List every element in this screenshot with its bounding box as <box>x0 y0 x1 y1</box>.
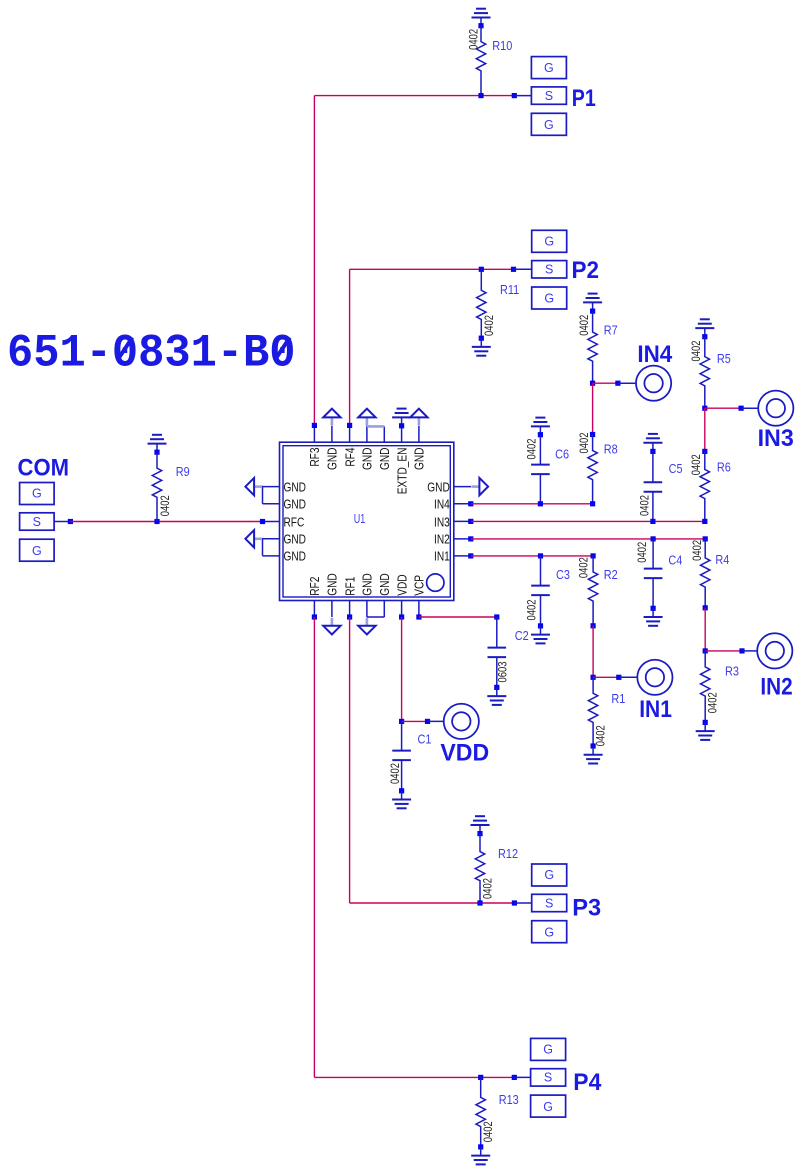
junction VDD pin <box>399 614 404 619</box>
junction R9 top <box>154 450 159 455</box>
capacitor C2 bottom lead <box>496 657 498 687</box>
wire IN1 net <box>471 555 593 557</box>
svg-text:R9: R9 <box>176 464 190 479</box>
junction IN4 branch <box>590 381 595 386</box>
svg-text:0402: 0402 <box>639 495 652 516</box>
svg-text:P3: P3 <box>572 895 601 922</box>
R11 ground lead <box>480 338 482 347</box>
connector VDD <box>444 704 479 739</box>
junction R4 bottom <box>703 605 708 610</box>
P1 port pin stub <box>514 95 531 97</box>
svg-text:0402: 0402 <box>578 432 591 453</box>
svg-text:R4: R4 <box>715 552 729 567</box>
capacitor C5 <box>644 482 663 492</box>
gnd arrow left GND1 <box>245 478 262 495</box>
U1 pad indicator circle <box>427 574 444 591</box>
wire IN1 to connector <box>593 676 619 678</box>
pin GND left4 stub <box>263 538 280 540</box>
svg-text:0402: 0402 <box>482 1121 495 1142</box>
ground at EXTD_EN <box>392 409 411 418</box>
resistor R5 <box>700 337 709 409</box>
wire P3 horizontal <box>350 902 515 904</box>
pin GND right stub <box>454 486 471 488</box>
wire IN2 net <box>471 538 705 540</box>
capacitor C4 bottom lead <box>652 578 654 608</box>
resistor R8 <box>588 435 597 504</box>
R1 ground lead <box>592 746 594 755</box>
svg-text:0402: 0402 <box>482 878 495 899</box>
svg-text:0402: 0402 <box>595 725 608 746</box>
slash of zero in 0831 <box>118 338 133 360</box>
junction R8 top <box>590 432 595 437</box>
pin RF1 stub <box>349 601 351 618</box>
junction R13 bottom <box>478 1144 483 1149</box>
resistor R9 <box>152 452 161 521</box>
svg-text:0402: 0402 <box>468 29 481 50</box>
capacitor C3 top lead <box>540 556 542 586</box>
svg-text:S: S <box>544 1071 552 1085</box>
junction COM S <box>68 519 73 524</box>
connector IN3 <box>758 391 793 426</box>
svg-text:G: G <box>544 868 554 882</box>
svg-text:0402: 0402 <box>578 557 591 578</box>
capacitor C1 top lead <box>401 721 403 750</box>
svg-text:IN2: IN2 <box>434 532 450 546</box>
IN1 connector stub <box>619 676 637 678</box>
svg-text:0402: 0402 <box>578 315 591 336</box>
port COM boxes G/S/G <box>20 483 55 562</box>
capacitor C2 top lead <box>496 617 498 648</box>
capacitor C6 <box>531 465 550 475</box>
junction P4 port pin <box>512 1075 517 1080</box>
svg-text:GND: GND <box>284 497 307 511</box>
resistor R11 <box>477 269 486 338</box>
junction C6 bottom on IN4 net <box>538 501 543 506</box>
junction R5 top <box>702 334 707 339</box>
junction P2/R11 <box>479 267 484 272</box>
port P1 boxes G/S/G <box>531 57 566 136</box>
gnd arrow bottom GND2 <box>323 618 340 635</box>
junction IN1 connector pin <box>616 675 621 680</box>
wire P3 vertical from RF1 <box>349 617 351 903</box>
svg-text:R1: R1 <box>611 691 625 706</box>
junction IN3 branch <box>702 406 707 411</box>
capacitor C2 (0603) <box>488 648 507 658</box>
junction P3 port pin <box>512 900 517 905</box>
svg-text:G: G <box>544 925 554 939</box>
junction VDD connector pin <box>425 719 430 724</box>
gnd arrow top GND7 <box>410 409 427 426</box>
capacitor C3 <box>531 586 550 596</box>
ground above R9 <box>148 435 167 444</box>
wire R7/R8 vertical <box>592 383 594 434</box>
junction C2 top <box>494 614 499 619</box>
wire IN2 to connector <box>705 650 742 652</box>
junction RF3 <box>312 423 317 428</box>
resistor R3 <box>701 651 710 723</box>
P3 port pin stub <box>514 902 531 904</box>
junction R3 bottom <box>703 720 708 725</box>
svg-text:U1: U1 <box>354 512 365 526</box>
pin GND top7 stub <box>418 426 420 442</box>
junction RFC/R9 <box>154 519 159 524</box>
ground above C5 <box>643 434 662 443</box>
svg-text:RFC: RFC <box>284 515 305 529</box>
wire P4 vertical from RF2 <box>313 617 315 1077</box>
svg-text:G: G <box>32 544 42 558</box>
svg-text:R3: R3 <box>725 664 739 679</box>
capacitor C1 <box>392 751 411 761</box>
ground below C3 <box>531 635 550 644</box>
svg-text:RF4: RF4 <box>343 447 357 467</box>
R9 ground lead <box>156 444 158 453</box>
capacitor C5 top lead <box>652 451 654 482</box>
pin RFC stub <box>263 521 280 523</box>
pin GND bot2 stub <box>331 601 333 618</box>
svg-text:R5: R5 <box>717 351 731 366</box>
svg-text:C3: C3 <box>556 567 570 582</box>
junction C2 bottom <box>494 685 499 690</box>
svg-text:0402: 0402 <box>691 540 704 561</box>
svg-text:0402: 0402 <box>526 599 539 620</box>
svg-text:C4: C4 <box>668 552 682 567</box>
pin VCP stub <box>418 601 420 618</box>
junction C4 bottom <box>651 606 656 611</box>
ground below C1 <box>392 800 411 809</box>
junction RF2 <box>312 614 317 619</box>
pin GND top4 stub <box>366 426 368 442</box>
C1 ground lead <box>401 791 403 800</box>
connector IN1 <box>637 660 672 695</box>
svg-text:G: G <box>544 61 554 75</box>
wire P1 horizontal <box>314 95 514 97</box>
ground below R1 <box>584 755 603 764</box>
junction IN2 branch <box>703 648 708 653</box>
port P3 boxes G/S/G <box>532 864 567 943</box>
junction R4 top on IN2 net <box>703 536 708 541</box>
wire R5/R6 vertical <box>704 408 706 451</box>
svg-text:0402: 0402 <box>707 692 720 713</box>
C4 ground lead <box>652 608 654 617</box>
wire P1 vertical to RF3 <box>313 96 315 426</box>
resistor R1 <box>588 677 597 746</box>
svg-text:0402: 0402 <box>159 495 172 516</box>
connector IN4 <box>636 366 671 401</box>
svg-text:RF2: RF2 <box>308 577 322 596</box>
svg-text:GND: GND <box>360 448 374 471</box>
svg-text:GND: GND <box>427 480 450 494</box>
pin RF4 stub <box>349 425 351 442</box>
junction R2 top on IN1 net <box>591 553 596 558</box>
svg-text:GND: GND <box>325 448 339 471</box>
wire IN4 to connector <box>593 382 618 384</box>
svg-text:VCP: VCP <box>412 575 426 596</box>
svg-text:S: S <box>545 896 553 910</box>
junction C3 top on IN1 net <box>538 553 543 558</box>
svg-text:GND: GND <box>284 550 307 564</box>
svg-text:C1: C1 <box>418 731 432 746</box>
ground above R5 <box>695 319 714 328</box>
pin GND top2 stub <box>331 426 333 442</box>
ground above C6 <box>531 418 550 427</box>
svg-text:RF3: RF3 <box>308 448 322 467</box>
IN2 connector stub <box>742 650 757 652</box>
junction C6 top <box>538 432 543 437</box>
capacitor C6 bottom lead <box>539 474 541 504</box>
pin GND bot5 stub and bracket <box>383 601 385 618</box>
svg-text:0402: 0402 <box>636 542 649 563</box>
wire R4 to IN2 branch <box>704 608 706 651</box>
svg-text:R2: R2 <box>604 567 618 582</box>
pin GND left1 stub <box>263 486 280 488</box>
junction VCP pin <box>416 614 421 619</box>
wire IN3 to connector <box>705 407 741 409</box>
svg-text:IN4: IN4 <box>434 497 450 511</box>
junction R8 bottom on IN4 net <box>590 501 595 506</box>
svg-text:COM: COM <box>18 454 70 481</box>
pin RF2 stub <box>313 601 315 618</box>
svg-text:GND: GND <box>325 573 339 596</box>
ground below C4 <box>644 617 663 626</box>
ground above R7 <box>583 294 602 303</box>
svg-text:GND: GND <box>412 448 426 471</box>
junction C3 bottom <box>538 623 543 628</box>
svg-text:GND: GND <box>284 532 307 546</box>
svg-text:P4: P4 <box>573 1069 602 1096</box>
junction RFC pin <box>260 519 265 524</box>
svg-text:G: G <box>32 487 42 501</box>
ground above R12 <box>471 816 490 825</box>
resistor R4 <box>701 539 710 608</box>
svg-text:GND: GND <box>378 573 392 596</box>
wire P4 horizontal <box>314 1076 514 1078</box>
svg-text:0402: 0402 <box>389 763 402 784</box>
gnd arrow top GND2 <box>323 409 340 426</box>
capacitor C5 bottom lead <box>652 492 654 522</box>
junction C5 bottom on IN3 net <box>650 519 655 524</box>
junction IN2 connector pin <box>739 648 744 653</box>
junction IN3 connector pin <box>739 406 744 411</box>
junction IN4 connector pin <box>615 381 620 386</box>
C2 ground lead <box>496 687 498 696</box>
junction R6 bottom on IN3 net <box>702 519 707 524</box>
gnd arrow bottom GND4 <box>358 618 375 635</box>
junction R12 top <box>477 831 482 836</box>
wire VCP net <box>419 616 497 618</box>
svg-text:R11: R11 <box>500 282 520 297</box>
pin GND left2 stub and bracket <box>263 503 280 505</box>
pin GND top5 stub and bracket <box>383 426 385 442</box>
svg-text:651-0831-B0: 651-0831-B0 <box>7 328 296 380</box>
junction R11 bottom <box>479 336 484 341</box>
svg-text:G: G <box>544 118 554 132</box>
ground below R3 <box>696 731 715 740</box>
svg-text:IN1: IN1 <box>434 550 450 564</box>
junction VDD branch <box>399 719 404 724</box>
COM S pin stub <box>54 521 70 523</box>
svg-text:IN4: IN4 <box>637 341 672 368</box>
op-amp U1 body (IC outline) <box>280 442 454 600</box>
svg-text:GND: GND <box>284 480 307 494</box>
junction C1 bottom <box>399 788 404 793</box>
svg-text:C5: C5 <box>669 461 683 476</box>
P2 port pin stub <box>514 268 532 270</box>
IN3 connector stub <box>741 407 758 409</box>
svg-text:EXTD_EN: EXTD_EN <box>395 448 409 495</box>
junction R6 top <box>702 449 707 454</box>
wire P2 vertical to RF4 <box>349 269 351 425</box>
junction C4 top on IN2 net <box>651 536 656 541</box>
junction RF4 <box>347 423 352 428</box>
junction P3/R12 <box>477 900 482 905</box>
R3 ground lead <box>704 722 706 731</box>
pin IN1 stub <box>454 555 471 557</box>
junction EXTD_EN <box>399 423 404 428</box>
svg-text:R7: R7 <box>604 322 618 337</box>
svg-text:VDD: VDD <box>395 574 409 595</box>
ground below R13 <box>471 1156 490 1165</box>
resistor R13 <box>476 1077 485 1147</box>
svg-text:G: G <box>544 292 554 306</box>
resistor R10 <box>476 26 485 96</box>
junction P4/R13 <box>478 1075 483 1080</box>
pin IN3 stub <box>454 520 471 522</box>
ground above R10 <box>472 9 491 18</box>
IN4 connector stub <box>618 382 636 384</box>
svg-text:R13: R13 <box>499 1092 519 1107</box>
wire P2 horizontal <box>350 268 514 270</box>
junction P1 port pin <box>512 93 517 98</box>
svg-text:0402: 0402 <box>690 340 703 361</box>
pin GND bot4 stub <box>366 601 368 618</box>
capacitor C4 <box>644 569 663 579</box>
svg-text:S: S <box>33 515 41 529</box>
P4 port pin stub <box>514 1076 530 1078</box>
gnd arrow right GND <box>471 478 488 495</box>
junction IN1 branch <box>591 675 596 680</box>
svg-text:R12: R12 <box>498 846 518 861</box>
pin IN4 stub <box>454 503 471 505</box>
ground below R11 <box>472 347 491 356</box>
svg-text:P2: P2 <box>572 257 600 284</box>
svg-text:IN3: IN3 <box>434 515 450 529</box>
junction C5 top <box>650 449 655 454</box>
resistor R12 <box>475 834 484 903</box>
R13 ground lead <box>480 1147 482 1156</box>
svg-text:R8: R8 <box>604 442 618 457</box>
pin IN2 stub <box>454 538 471 540</box>
ground below C2 <box>487 696 506 705</box>
junction RF1 <box>347 614 352 619</box>
port P2 boxes G/S/G <box>532 230 567 309</box>
pin VDD stub <box>401 601 403 618</box>
svg-text:R10: R10 <box>492 38 512 53</box>
wire IN3 net <box>471 520 705 522</box>
resistor R2 <box>588 556 597 626</box>
wire RFC net <box>70 521 262 523</box>
svg-text:IN1: IN1 <box>639 696 672 723</box>
capacitor C6 top lead <box>539 435 541 465</box>
svg-text:C2: C2 <box>515 628 529 643</box>
svg-text:GND: GND <box>360 573 374 596</box>
slash of zero in B0 <box>275 338 290 360</box>
pin EXTD_EN stub <box>401 417 403 442</box>
gnd arrow top GND4 <box>358 409 375 426</box>
VDD connector stub <box>428 720 444 722</box>
pin RF3 stub <box>313 425 315 442</box>
svg-text:G: G <box>543 1043 553 1057</box>
svg-text:S: S <box>545 263 553 277</box>
svg-text:VDD: VDD <box>440 740 489 767</box>
svg-text:R6: R6 <box>717 460 731 475</box>
junction R10 top <box>478 23 483 28</box>
R10 ground lead <box>480 18 482 26</box>
svg-text:GND: GND <box>378 448 392 471</box>
svg-text:RF1: RF1 <box>343 577 357 596</box>
svg-text:0402: 0402 <box>483 315 496 336</box>
resistor R6 <box>700 451 709 521</box>
capacitor C1 bottom lead <box>401 760 403 791</box>
junction R1 bottom <box>591 743 596 748</box>
junction P1/R10 <box>478 93 483 98</box>
capacitor C4 top lead <box>652 539 654 569</box>
svg-text:0402: 0402 <box>690 454 703 475</box>
C3 ground lead <box>540 626 542 635</box>
svg-text:IN2: IN2 <box>760 673 792 700</box>
capacitor C3 bottom lead <box>540 595 542 626</box>
wire IN4 net <box>471 503 593 505</box>
svg-text:G: G <box>543 1100 553 1114</box>
junction P2 port pin <box>511 267 516 272</box>
port P4 boxes G/S/G <box>531 1038 566 1117</box>
wire VDD vertical <box>401 617 403 721</box>
pin GND left5 stub and bracket <box>263 555 280 557</box>
wire VDD to connector <box>402 720 428 722</box>
svg-text:0402: 0402 <box>526 438 539 459</box>
svg-text:C6: C6 <box>555 447 569 462</box>
svg-text:IN3: IN3 <box>758 425 794 452</box>
connector IN2 <box>757 633 792 668</box>
svg-text:G: G <box>544 235 554 249</box>
wire R2 to IN1 branch <box>592 626 594 678</box>
junction R2 bottom <box>591 623 596 628</box>
svg-text:P1: P1 <box>572 85 596 112</box>
resistor R7 <box>588 311 597 383</box>
junction R7 top <box>590 309 595 314</box>
gnd arrow left GND4 <box>245 530 262 547</box>
svg-text:0603: 0603 <box>497 661 510 682</box>
svg-text:S: S <box>545 89 553 103</box>
